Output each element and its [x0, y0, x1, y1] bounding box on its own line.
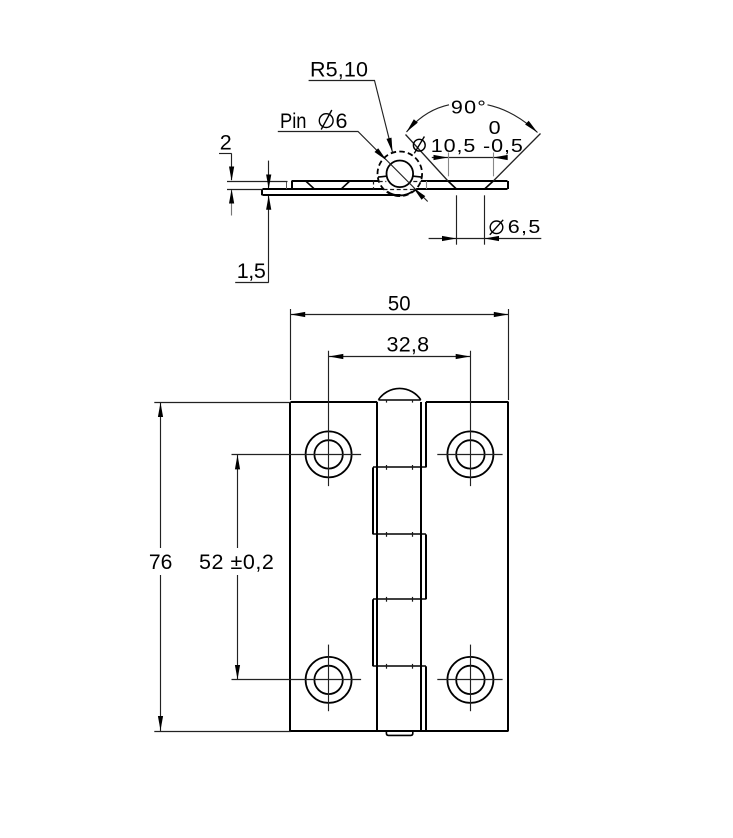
svg-text:2: 2: [220, 131, 232, 155]
svg-text:10,5 -0,5: 10,5 -0,5: [431, 137, 523, 157]
svg-text:76: 76: [149, 550, 173, 574]
svg-text:6,5: 6,5: [508, 218, 541, 238]
svg-text:32,8: 32,8: [387, 333, 430, 357]
svg-text:R5,10: R5,10: [310, 58, 368, 82]
svg-text:Pin: Pin: [280, 109, 307, 133]
svg-text:50: 50: [388, 291, 411, 315]
svg-text:6: 6: [336, 109, 348, 133]
svg-text:90°: 90°: [451, 98, 486, 118]
svg-text:52 ±0,2: 52 ±0,2: [199, 550, 274, 574]
svg-text:1,5: 1,5: [237, 259, 266, 283]
